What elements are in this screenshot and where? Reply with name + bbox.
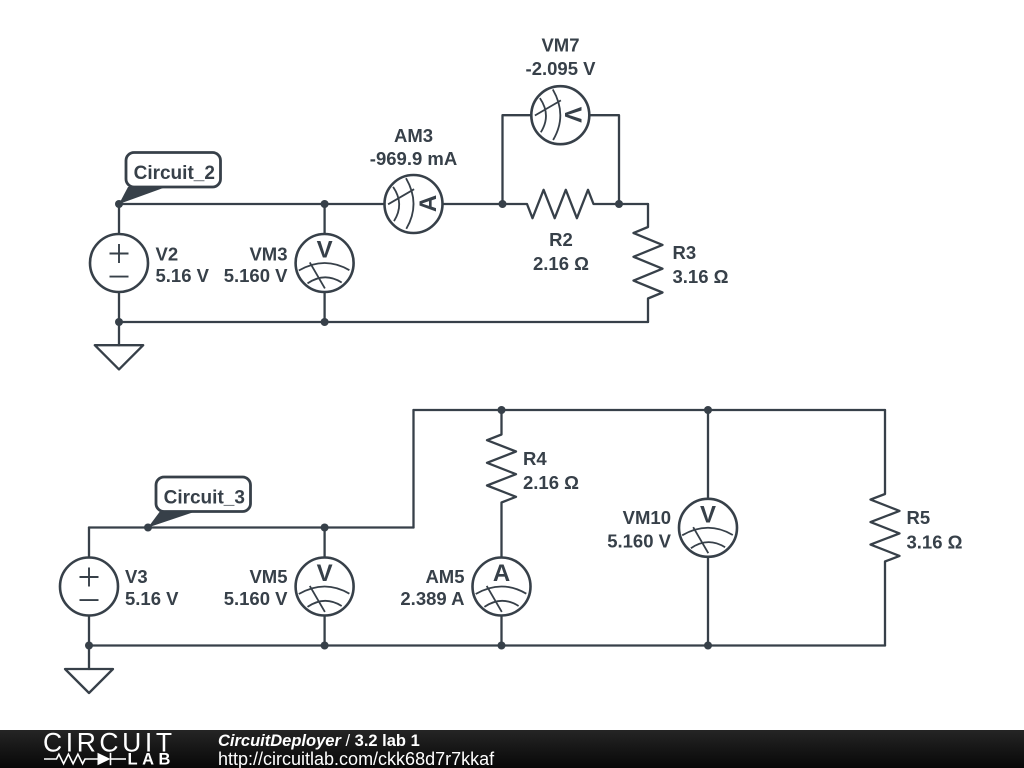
wire bottom rail Circuit_2 bbox=[119, 321, 648, 323]
svg-text:5.160 V: 5.160 V bbox=[607, 531, 671, 552]
svg-text:3.16 Ω: 3.16 Ω bbox=[673, 266, 729, 287]
svg-text:V3: V3 bbox=[125, 566, 148, 587]
wire V2 top riser bbox=[118, 204, 120, 234]
svg-text:3.16 Ω: 3.16 Ω bbox=[907, 532, 963, 553]
svg-text:Circuit_2: Circuit_2 bbox=[134, 163, 215, 184]
svg-text:R4: R4 bbox=[523, 448, 547, 469]
voltmeter VM10 bbox=[679, 499, 737, 557]
node A Circuit_2 bbox=[115, 200, 123, 208]
svg-text:5.16 V: 5.16 V bbox=[125, 588, 179, 609]
resistor R2 bbox=[503, 190, 620, 218]
ground Circuit_2 bbox=[95, 322, 143, 369]
voltmeter VM7 bbox=[531, 86, 589, 144]
resistor R4 bbox=[487, 410, 516, 558]
svg-text:AM5: AM5 bbox=[425, 566, 464, 587]
wire riser mid-to-top rail bbox=[412, 410, 414, 528]
wire top rail Circuit_2 bbox=[119, 203, 385, 205]
wire V3 bottom riser bbox=[88, 616, 90, 646]
wire V3 top riser bbox=[88, 528, 90, 558]
node VM10 bottom bbox=[704, 642, 712, 650]
node VM5 top bbox=[321, 524, 329, 532]
voltmeter VM3 bbox=[296, 234, 354, 292]
svg-text:2.16 Ω: 2.16 Ω bbox=[523, 472, 579, 493]
ammeter AM5 bbox=[473, 558, 531, 616]
svg-text:V: V bbox=[317, 237, 333, 264]
svg-text:5.16 V: 5.16 V bbox=[156, 265, 210, 286]
node B Circuit_3 bbox=[144, 524, 152, 532]
wire VM10 bottom riser bbox=[707, 557, 709, 646]
ammeter AM3 bbox=[385, 175, 443, 233]
svg-text:A: A bbox=[493, 560, 510, 587]
wire VM3 top riser bbox=[323, 204, 325, 234]
svg-text:V: V bbox=[700, 501, 716, 528]
svg-text:http://circuitlab.com/ckk68d7r: http://circuitlab.com/ckk68d7r7kkaf bbox=[218, 749, 495, 768]
svg-text:V2: V2 bbox=[156, 244, 179, 265]
svg-text:R5: R5 bbox=[907, 507, 931, 528]
svg-text:R3: R3 bbox=[673, 242, 697, 263]
voltage source V2 bbox=[90, 234, 148, 292]
svg-text:-2.095 V: -2.095 V bbox=[526, 58, 597, 79]
node AM5 bottom bbox=[498, 642, 506, 650]
node VM3 bottom bbox=[321, 318, 329, 326]
svg-text:AM3: AM3 bbox=[394, 125, 433, 146]
wire VM7 right riser bbox=[589, 115, 619, 204]
callout Circuit_3 bbox=[148, 477, 251, 528]
node R2 right bbox=[615, 200, 623, 208]
svg-text:VM7: VM7 bbox=[541, 35, 579, 56]
wire mid rail Circuit_3 bbox=[89, 526, 414, 528]
ground Circuit_3 bbox=[65, 646, 113, 694]
svg-text:A: A bbox=[415, 195, 442, 212]
svg-text:VM3: VM3 bbox=[249, 244, 287, 265]
svg-text:R2: R2 bbox=[549, 229, 573, 250]
wire VM7 left riser bbox=[503, 115, 532, 204]
svg-text:V: V bbox=[559, 107, 586, 123]
meter letters bbox=[317, 107, 716, 587]
wire AM5 bottom riser bbox=[500, 616, 502, 646]
node junction dots bbox=[85, 200, 712, 650]
wire VM5 bottom riser bbox=[323, 616, 325, 646]
logo schematic squiggle bbox=[44, 753, 126, 765]
svg-text:5.160 V: 5.160 V bbox=[224, 265, 288, 286]
wire VM5 top riser bbox=[323, 528, 325, 558]
wire node to R3 corner bbox=[619, 203, 648, 205]
svg-text:-969.9 mA: -969.9 mA bbox=[370, 148, 457, 169]
svg-text:VM5: VM5 bbox=[249, 566, 287, 587]
svg-text:CircuitDeployer / 3.2 lab 1: CircuitDeployer / 3.2 lab 1 bbox=[218, 732, 420, 750]
svg-text:2.389 A: 2.389 A bbox=[400, 588, 464, 609]
node V2 bottom bbox=[115, 318, 123, 326]
wire bottom rail Circuit_3 bbox=[89, 644, 885, 646]
wire V2 bottom riser bbox=[118, 292, 120, 322]
svg-text:Circuit_3: Circuit_3 bbox=[164, 488, 245, 509]
node V3 bottom bbox=[85, 642, 93, 650]
callout Circuit_2 bbox=[119, 153, 221, 205]
footer bar bbox=[0, 730, 1024, 768]
svg-text:5.160 V: 5.160 V bbox=[224, 588, 288, 609]
node R4 top bbox=[498, 406, 506, 414]
wire VM3 bottom riser bbox=[323, 292, 325, 322]
resistor R3 bbox=[634, 204, 663, 322]
node R2 left bbox=[499, 200, 507, 208]
voltmeter VM5 bbox=[296, 558, 354, 616]
wire top rail Circuit_3 bbox=[414, 409, 886, 411]
node VM3 top bbox=[321, 200, 329, 208]
svg-text:LAB: LAB bbox=[128, 751, 175, 768]
resistor R5 bbox=[871, 410, 900, 646]
node VM10 top bbox=[704, 406, 712, 414]
node VM5 bottom bbox=[321, 642, 329, 650]
svg-text:2.16 Ω: 2.16 Ω bbox=[533, 253, 589, 274]
svg-text:V: V bbox=[317, 560, 333, 587]
wire VM10 top riser bbox=[707, 410, 709, 499]
wire AM3 right to node bbox=[443, 203, 503, 205]
voltage source V3 bbox=[60, 558, 118, 616]
svg-text:VM10: VM10 bbox=[623, 507, 671, 528]
